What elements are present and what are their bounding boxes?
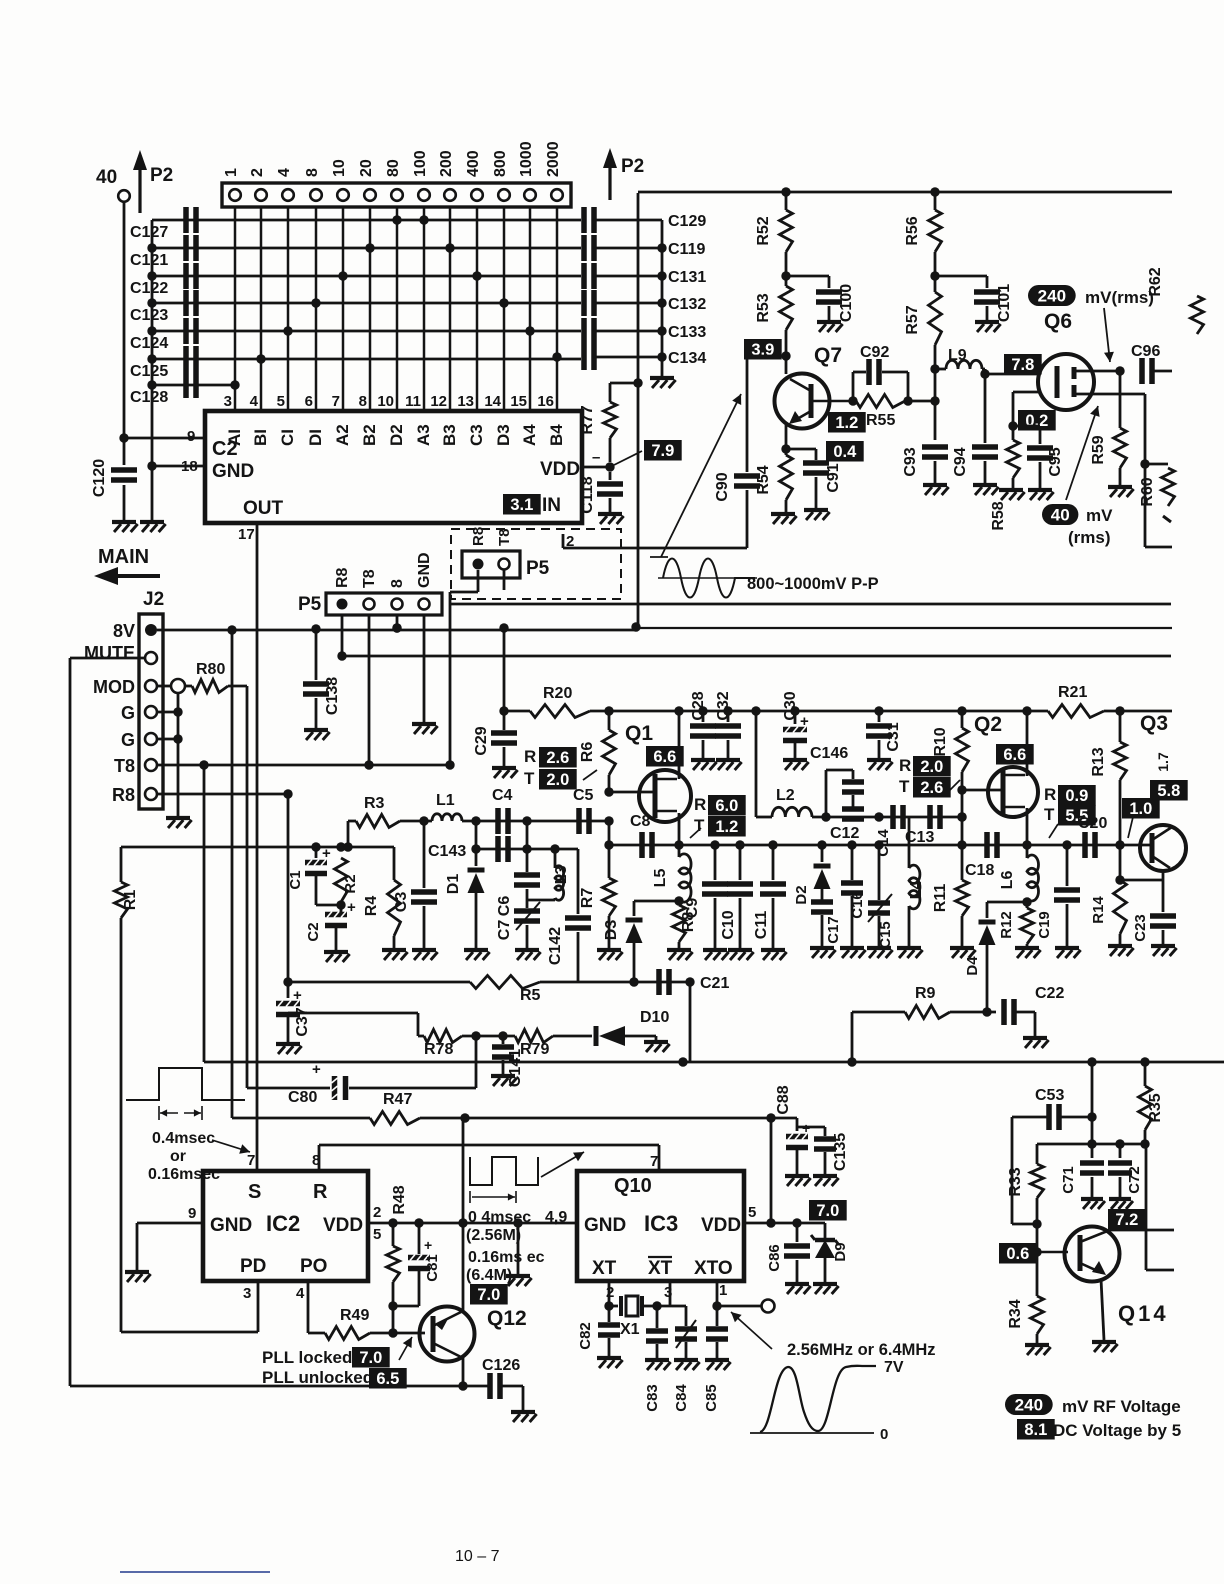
svg-text:T8: T8: [114, 756, 135, 776]
ground IC2 pin9: [125, 1272, 151, 1282]
resistor R49: [308, 1281, 393, 1340]
wire C126 out: [501, 1386, 523, 1410]
wire C142 down: [577, 932, 580, 982]
svg-text:DC Voltage by 5: DC Voltage by 5: [1053, 1421, 1181, 1440]
ground C19: [1055, 904, 1081, 958]
capacitor C23: [1132, 880, 1176, 942]
svg-text:G: G: [121, 703, 135, 723]
resistor R58: [990, 440, 1020, 531]
svg-text:C18: C18: [965, 862, 994, 879]
svg-text:+: +: [312, 1061, 321, 1078]
dashed detail box: [451, 529, 621, 599]
svg-text:R78: R78: [424, 1041, 453, 1058]
capacitor C92: [853, 344, 908, 401]
wire R57-L9 node: [930, 345, 939, 440]
svg-text:R8: R8: [470, 527, 487, 546]
wire R47 row: [420, 1113, 797, 1122]
svg-text:C126: C126: [482, 1357, 520, 1374]
wire Q14 output tap: [1146, 1144, 1174, 1270]
svg-text:S: S: [248, 1181, 261, 1203]
svg-text:R8: R8: [334, 567, 351, 588]
label 0.4: [826, 441, 864, 462]
svg-text:2.6: 2.6: [546, 749, 569, 767]
ground C32: [716, 740, 742, 770]
svg-text:–: –: [592, 449, 600, 466]
resistor R62 (partial): [1147, 192, 1204, 334]
ground C91: [804, 477, 830, 520]
wire R9-C22 node: [950, 1007, 996, 1016]
wire MUTE: [70, 658, 145, 1386]
ground C86: [785, 1260, 811, 1294]
svg-text:16: 16: [537, 393, 554, 410]
svg-text:C82: C82: [577, 1322, 594, 1350]
svg-text:C133: C133: [668, 324, 706, 341]
resistor R3: [356, 795, 400, 828]
svg-text:A3: A3: [414, 424, 433, 446]
svg-text:R62: R62: [1147, 267, 1164, 296]
capacitor C20: [1078, 815, 1107, 858]
capacitor C119: [445, 235, 705, 261]
wire row-982: [283, 977, 694, 986]
capacitor C22: [1004, 985, 1064, 1025]
transistor Q1: [625, 722, 691, 822]
inductor L2: [756, 787, 812, 817]
label 7.8: [1004, 354, 1042, 375]
svg-text:3: 3: [224, 393, 232, 410]
svg-text:800~1000mV P-P: 800~1000mV P-P: [747, 575, 879, 593]
svg-text:0.16ms ec: 0.16ms ec: [468, 1249, 545, 1266]
ground D10-net: [644, 1036, 670, 1052]
wire Q6 drain: [1074, 366, 1125, 375]
svg-text:10: 10: [331, 159, 348, 177]
ground C88: [785, 1150, 811, 1186]
svg-text:R: R: [899, 756, 911, 775]
wire C71 feed: [1087, 1057, 1096, 1148]
wire row-656: [342, 655, 1171, 658]
svg-text:R80: R80: [196, 661, 225, 678]
ground C2: [324, 952, 350, 962]
ground C138: [304, 698, 330, 740]
svg-text:C118: C118: [579, 476, 596, 513]
wire IC3 pin7: [650, 1145, 659, 1171]
capacitor C125: [130, 346, 581, 380]
svg-text:5: 5: [748, 1204, 756, 1221]
svg-text:R: R: [1044, 785, 1056, 804]
svg-text:C85: C85: [703, 1384, 720, 1412]
svg-text:C3: C3: [467, 424, 486, 446]
resistor R6: [579, 711, 616, 775]
svg-text:1000: 1000: [518, 141, 535, 177]
label R 0.9: [1044, 785, 1096, 806]
wire P5-GND: [423, 615, 426, 722]
capacitor C124: [130, 318, 581, 352]
wire row-1036: [418, 1035, 424, 1038]
svg-text:2.0: 2.0: [546, 771, 569, 789]
svg-text:4: 4: [250, 393, 259, 410]
capacitor C88: [775, 1085, 810, 1147]
capacitor C71: [1060, 1144, 1104, 1194]
svg-text:C93: C93: [902, 447, 919, 476]
P2 pin number labels: [223, 141, 562, 177]
capacitor C9: [684, 845, 728, 918]
capacitor C17: [811, 898, 842, 944]
capacitor C128: [130, 372, 240, 406]
resistor R20: [530, 685, 590, 718]
svg-text:C23: C23: [1132, 914, 1149, 942]
svg-text:R1: R1: [122, 890, 139, 911]
label 3.1 IN: [503, 494, 561, 516]
svg-text:GND: GND: [416, 552, 433, 588]
label T 2.6: [899, 777, 960, 798]
svg-text:R54: R54: [755, 465, 772, 494]
svg-text:(2.56M): (2.56M): [466, 1227, 521, 1244]
ground C93: [923, 461, 949, 495]
ground J2-G: [166, 818, 192, 828]
svg-text:C88: C88: [775, 1085, 792, 1114]
capacitor C90: [714, 356, 786, 502]
label T 1.2: [690, 816, 746, 838]
wire IC2 R pin8: [319, 1145, 659, 1171]
label R 2.0: [899, 756, 951, 777]
svg-text:XT: XT: [648, 1258, 673, 1279]
svg-text:2: 2: [249, 168, 266, 177]
svg-text:6: 6: [305, 393, 313, 410]
wire C1-C2 node: [316, 876, 356, 916]
wire R9 column: [851, 1012, 854, 1062]
label T 5.5: [1044, 805, 1096, 838]
svg-text:Q3: Q3: [1140, 712, 1168, 735]
svg-text:R33: R33: [1007, 1167, 1024, 1196]
label 6.6 (Q2): [996, 744, 1034, 765]
svg-text:0.9: 0.9: [1065, 787, 1088, 805]
diode D3: [603, 901, 643, 982]
svg-text:8V: 8V: [113, 621, 135, 641]
resistor R80: [192, 661, 247, 693]
svg-text:L9: L9: [948, 347, 967, 364]
label 0.2: [1018, 410, 1056, 431]
svg-text:MAIN: MAIN: [98, 546, 149, 568]
svg-text:1.2: 1.2: [715, 818, 738, 836]
svg-text:8: 8: [359, 393, 367, 410]
capacitor C138: [303, 629, 341, 715]
capacitor C30: [782, 691, 809, 740]
svg-text:C8: C8: [630, 813, 651, 830]
resistor R54: [755, 455, 793, 500]
svg-text:P5: P5: [526, 558, 550, 579]
ground C28: [691, 740, 717, 770]
ground C16: [840, 896, 866, 958]
svg-text:40: 40: [1051, 506, 1070, 525]
svg-text:D2: D2: [793, 885, 810, 904]
wire IC3 VDD: [744, 1218, 797, 1227]
capacitor C95: [1013, 426, 1064, 477]
label 7.9: [614, 440, 682, 465]
svg-text:R60: R60: [1139, 477, 1156, 506]
svg-text:(rms): (rms): [1068, 528, 1111, 547]
wire Q2 source: [1022, 808, 1031, 850]
wire P5-R8: [337, 615, 346, 661]
svg-text:D10: D10: [640, 1009, 669, 1026]
inductor L1: [432, 792, 462, 821]
capacitor C94: [952, 374, 998, 477]
svg-text:B4: B4: [547, 424, 566, 446]
label PLL locked: [262, 1347, 390, 1368]
svg-text:C92: C92: [860, 344, 889, 361]
IC2 pin numbers: [188, 1152, 381, 1302]
capacitor C118: [579, 472, 623, 514]
svg-text:D9: D9: [832, 1242, 849, 1261]
capacitor C96: [1131, 343, 1172, 384]
svg-text:C7: C7: [496, 920, 513, 941]
svg-text:B2: B2: [360, 424, 379, 446]
wire IC3 gnd stub: [517, 1223, 519, 1276]
ground P5-GND: [412, 724, 438, 734]
wire C80 out: [349, 1036, 476, 1088]
label 8.1 DC: [1017, 1419, 1181, 1440]
svg-text:T8: T8: [496, 528, 513, 546]
svg-text:C32: C32: [715, 691, 732, 720]
wire C53 left: [1012, 1117, 1042, 1229]
wire Q3 emitter: [1115, 871, 1163, 885]
svg-text:Q2: Q2: [974, 713, 1002, 736]
svg-text:5: 5: [277, 393, 285, 410]
ground D1: [464, 950, 490, 960]
P2 arrow (right): [603, 148, 644, 200]
capacitor C72: [1108, 1144, 1143, 1194]
svg-text:C14: C14: [875, 829, 892, 857]
wire Q1 gate node: [604, 775, 656, 797]
resistor R53: [755, 286, 793, 330]
svg-text:C129: C129: [668, 213, 706, 230]
resistor R52: [755, 192, 793, 252]
label 7.0 (Q12): [470, 1284, 508, 1305]
ground cap-bank left: [140, 510, 166, 532]
annotation leader to Q7: [650, 394, 741, 557]
svg-text:R53: R53: [755, 293, 772, 322]
wire top rail 8V: [638, 187, 1172, 196]
wire Q6 source: [1074, 394, 1172, 547]
svg-text:6.6: 6.6: [653, 748, 676, 766]
svg-text:C4: C4: [492, 787, 513, 804]
resistor R7: [579, 878, 616, 916]
label 40 mV(rms): [1042, 406, 1113, 547]
capacitor C32: [715, 691, 741, 736]
svg-text:R9: R9: [915, 985, 936, 1002]
svg-text:D3: D3: [494, 424, 513, 446]
svg-text:(6.4M): (6.4M): [466, 1267, 512, 1284]
svg-text:C100: C100: [838, 284, 855, 322]
wire row-817: [812, 812, 967, 821]
capacitor C123: [130, 290, 581, 324]
capacitor C133: [525, 318, 706, 344]
IC2 text: [210, 1181, 363, 1277]
svg-text:T: T: [899, 777, 910, 796]
svg-text:X1: X1: [620, 1321, 640, 1338]
wire bus row-1062: [260, 1057, 1224, 1066]
capacitor C7 (variable): [496, 889, 540, 940]
ground C37: [276, 1016, 302, 1054]
svg-text:Q10: Q10: [614, 1175, 652, 1197]
ground IC3 gnd: [506, 1218, 532, 1286]
inductor L3: [527, 849, 570, 900]
svg-text:2.0: 2.0: [920, 758, 943, 776]
svg-text:8.1: 8.1: [1024, 1421, 1047, 1439]
P2 arrow (left): [96, 150, 173, 213]
ground C83: [645, 1344, 671, 1370]
svg-text:R34: R34: [1007, 1299, 1024, 1328]
svg-text:R58: R58: [990, 501, 1007, 530]
wire row-1144: [1037, 1139, 1146, 1148]
resistor R1: [115, 847, 140, 918]
wire R49-base: [393, 1332, 425, 1335]
svg-text:PD: PD: [240, 1256, 266, 1277]
svg-text:4: 4: [296, 1285, 305, 1302]
annotation squarewave: [470, 1152, 584, 1203]
resistor R60: [1139, 464, 1175, 522]
svg-text:7.2: 7.2: [1115, 1211, 1138, 1229]
IC C2 text: [181, 428, 580, 550]
resistor R77: [579, 383, 638, 438]
wire row-821: [348, 816, 614, 847]
wire P5-T8: [364, 615, 373, 770]
svg-text:R59: R59: [1090, 435, 1107, 464]
svg-text:VDD: VDD: [701, 1215, 741, 1236]
wire R1 row: [121, 842, 394, 851]
svg-text:T: T: [1044, 805, 1055, 824]
label 6.6 (Q1): [646, 746, 684, 767]
svg-text:R11: R11: [932, 884, 949, 913]
svg-text:240: 240: [1015, 1396, 1043, 1415]
wire cap-bank right rail: [661, 220, 664, 376]
wire plug leads: [445, 570, 504, 770]
label T 2.0: [524, 769, 597, 790]
svg-text:40: 40: [96, 167, 117, 188]
svg-text:800: 800: [492, 150, 509, 177]
ground C17: [810, 915, 836, 958]
J2 pin names: [84, 621, 135, 805]
resistor R48: [387, 1185, 409, 1282]
svg-text:3.1: 3.1: [510, 496, 533, 514]
svg-text:2.56MHz or 6.4MHz: 2.56MHz or 6.4MHz: [787, 1341, 936, 1359]
wire top-rail feed: [631, 193, 642, 632]
wire T8 row: [157, 760, 450, 769]
ground R54: [771, 500, 797, 524]
resistor R47: [232, 1091, 420, 1125]
ground Q14 emitter: [1092, 1342, 1118, 1352]
svg-text:14: 14: [484, 393, 501, 410]
svg-text:P2: P2: [150, 165, 173, 186]
svg-text:C72: C72: [1126, 1166, 1143, 1194]
svg-text:R47: R47: [383, 1091, 412, 1108]
capacitor C122: [130, 263, 581, 297]
svg-text:Q1: Q1: [625, 722, 653, 745]
terminal XTO: [762, 1300, 775, 1313]
capacitor C120: [91, 459, 137, 497]
capacitor C31: [866, 711, 902, 752]
label 1.2: [828, 412, 866, 433]
svg-text:C124: C124: [130, 335, 168, 352]
wire C90 out: [563, 490, 747, 548]
wire R52/R53 node: [781, 252, 790, 286]
svg-text:C19: C19: [1036, 911, 1053, 939]
svg-text:12: 12: [430, 393, 447, 410]
capacitor C13: [905, 805, 940, 846]
inductor L9: [935, 347, 982, 369]
wire R78 node: [462, 1031, 515, 1040]
svg-text:7.8: 7.8: [1011, 356, 1034, 374]
svg-text:200: 200: [438, 150, 455, 177]
svg-text:7.9: 7.9: [651, 442, 674, 460]
svg-text:17: 17: [238, 526, 255, 543]
svg-text:C142: C142: [547, 927, 564, 965]
capacitor C91: [786, 449, 842, 493]
svg-text:C134: C134: [668, 350, 706, 367]
svg-text:C94: C94: [952, 447, 969, 476]
svg-text:C2: C2: [212, 438, 238, 460]
svg-text:Q14: Q14: [1118, 1301, 1169, 1326]
ground C135: [813, 1152, 839, 1186]
svg-text:C81: C81: [424, 1254, 441, 1282]
resistor R14: [1090, 845, 1127, 934]
wire R8-C37 column: [287, 794, 290, 982]
capacitor C142: [547, 849, 591, 965]
wire IC2 VDD row: [368, 1218, 577, 1227]
svg-text:15: 15: [510, 393, 527, 410]
svg-text:R14: R14: [1090, 896, 1107, 924]
wire Q2 gate node: [957, 772, 1004, 880]
wire row-845: [609, 840, 962, 849]
svg-text:C30: C30: [782, 691, 799, 720]
svg-text:VDD: VDD: [323, 1215, 363, 1236]
svg-text:0.4msec: 0.4msec: [152, 1130, 215, 1147]
label R 2.6: [524, 747, 577, 768]
svg-text:+: +: [424, 1237, 432, 1253]
IC3 pin numbers: [606, 1204, 756, 1301]
svg-text:GND: GND: [210, 1215, 252, 1236]
svg-text:VDD: VDD: [540, 459, 580, 480]
svg-text:XTO: XTO: [694, 1258, 733, 1279]
wire R8 row: [157, 789, 293, 798]
label 2.56MHz: [787, 1341, 936, 1359]
wire row-1013: [288, 1013, 418, 1036]
capacitor C4: [492, 787, 513, 834]
svg-text:80: 80: [385, 159, 402, 177]
svg-text:L4: L4: [908, 881, 925, 900]
wire R56/R57 node: [930, 252, 939, 292]
resistor R10: [932, 711, 969, 772]
svg-text:C122: C122: [130, 280, 168, 297]
svg-text:C12: C12: [830, 825, 859, 842]
label 7V: [884, 1359, 904, 1376]
svg-text:XT: XT: [592, 1258, 617, 1279]
svg-text:8: 8: [304, 168, 321, 177]
wire T8 column: [204, 765, 260, 1062]
svg-text:240: 240: [1038, 287, 1066, 306]
capacitor C14: [875, 805, 903, 857]
capacitor C82: [577, 1306, 620, 1350]
svg-text:L2: L2: [776, 787, 795, 804]
transistor Q7: [775, 344, 854, 449]
label 0.4msec or: [148, 1130, 250, 1183]
svg-text:C86: C86: [766, 1244, 783, 1272]
svg-text:C138: C138: [324, 677, 341, 715]
ground C30: [783, 742, 809, 770]
svg-text:GND: GND: [584, 1215, 626, 1236]
IC U-C2 body: [205, 411, 582, 523]
svg-text:C135: C135: [832, 1133, 849, 1171]
svg-text:C10: C10: [720, 910, 737, 939]
svg-text:0.16msec: 0.16msec: [148, 1166, 220, 1183]
